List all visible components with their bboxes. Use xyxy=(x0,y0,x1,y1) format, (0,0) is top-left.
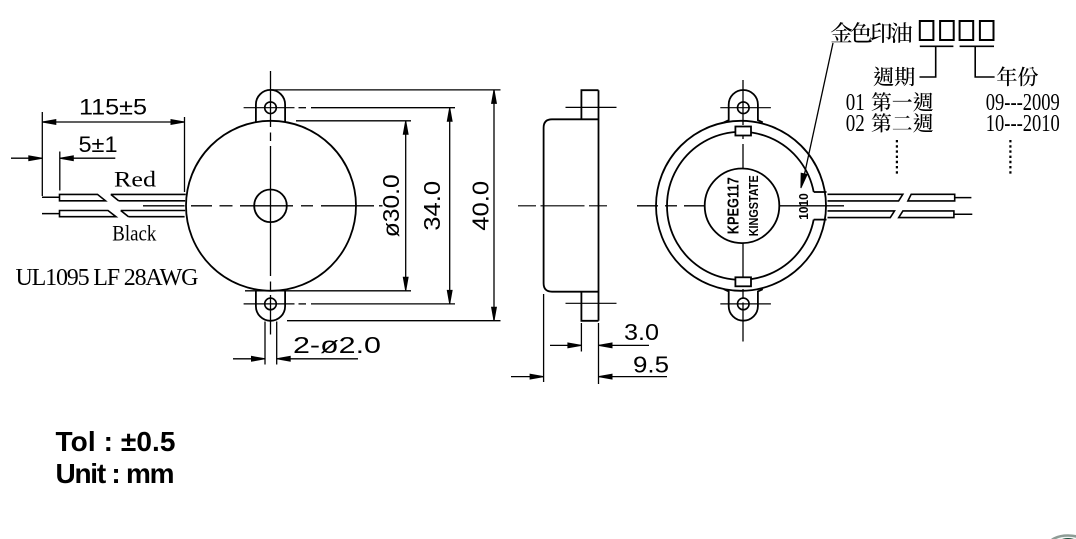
dimension 3.0 extension line right xyxy=(598,323,600,384)
svg-text:ø30.0: ø30.0 xyxy=(378,174,404,237)
black wire insulation segment 2 xyxy=(121,211,186,217)
dimension 9.5 extension line left xyxy=(543,294,545,382)
gold ink print label 金色印油 xyxy=(831,22,852,42)
front view bottom tab hole 2.0 xyxy=(265,298,277,310)
back view black wire segment 2 xyxy=(899,211,954,218)
dimension ø30.0 line xyxy=(405,121,407,291)
black wire bare conductor xyxy=(42,213,60,215)
dimension 9.5 outside arrow right xyxy=(599,376,668,378)
front view top tab hole centerline xyxy=(244,107,295,109)
marking box 4 xyxy=(980,21,994,40)
dimension 5±1 outside arrow left xyxy=(11,157,42,159)
front view center hole xyxy=(254,190,287,223)
marking box 3 xyxy=(960,21,974,40)
dimension 34.0 extension line bottom xyxy=(299,303,307,305)
back view label circle xyxy=(705,169,780,244)
back view red wire segment 2 xyxy=(908,194,955,201)
year label 年份 xyxy=(997,66,1017,86)
back view top rim notch xyxy=(735,127,751,136)
back view bottom rim notch xyxy=(735,277,751,286)
side view body outline xyxy=(544,119,599,291)
svg-text:UL1095 LF 28AWG: UL1095 LF 28AWG xyxy=(16,265,199,291)
svg-text:Red: Red xyxy=(114,167,156,192)
dimension ø30.0 extension line bottom xyxy=(245,290,411,292)
svg-text:9.5: 9.5 xyxy=(633,352,669,378)
week ellipsis dots xyxy=(896,140,898,176)
dimension 5±1 outside arrow right xyxy=(60,157,116,159)
side view bottom hole centerline xyxy=(566,302,617,304)
dimension 9.5 outside arrow left xyxy=(511,376,544,378)
front view bottom mounting tab xyxy=(256,290,285,320)
svg-text:10---2010: 10---2010 xyxy=(986,111,1060,137)
back view outer circle xyxy=(656,121,826,291)
back view horizontal centerline xyxy=(637,205,658,207)
dimension ø30.0 extension line top xyxy=(296,120,411,122)
marking box 2 xyxy=(940,21,954,40)
back view black wire bare conductor xyxy=(954,213,972,215)
dimension 115±5 extension line right xyxy=(184,117,186,192)
week label 週期 xyxy=(874,67,894,87)
dimension 40.0 extension line bottom xyxy=(287,320,501,322)
side view top tab xyxy=(581,90,598,119)
side view bottom tab xyxy=(581,292,598,321)
dimension 2-ø2.0 outside arrow left xyxy=(233,358,265,360)
back view top mounting tab xyxy=(724,90,763,122)
svg-text:2-ø2.0: 2-ø2.0 xyxy=(293,332,381,358)
front view outer circle ø30 xyxy=(186,121,356,291)
dimension 3.0 outside arrow right xyxy=(599,344,650,346)
back view red wire bare conductor xyxy=(955,197,972,199)
front view top tab hole 2.0 xyxy=(265,102,277,114)
svg-text:1010: 1010 xyxy=(797,193,811,220)
dimension 3.0 extension line left xyxy=(580,323,582,352)
back view bottom mounting tab xyxy=(724,289,763,321)
svg-text:5±1: 5±1 xyxy=(79,132,118,157)
dimension 40.0 extension line top xyxy=(271,89,501,91)
dimension 115±5 extension line left xyxy=(41,112,43,196)
svg-text:Unit : mm: Unit : mm xyxy=(56,458,175,489)
svg-text:Black: Black xyxy=(112,221,156,246)
dimension 3.0 outside arrow left xyxy=(550,344,581,346)
front view top mounting tab xyxy=(256,90,285,122)
dimension 40.0 line xyxy=(493,90,495,321)
red wire insulation segment 2 xyxy=(111,194,186,200)
back view rim gap bottom edge xyxy=(814,219,827,221)
dimension 34.0 extension line top xyxy=(299,107,307,109)
black wire insulation segment 1 xyxy=(60,211,117,217)
week code 02 label 第二週 xyxy=(872,113,891,132)
svg-text:Tol : ±0.5: Tol : ±0.5 xyxy=(56,426,176,457)
year bracket xyxy=(960,46,995,77)
side view horizontal centerline xyxy=(518,205,619,207)
red wire insulation segment 1 xyxy=(60,194,106,200)
dimension 2-ø2.0 outside arrow right xyxy=(277,358,358,360)
back view rim gap top edge xyxy=(814,191,827,193)
marking box 1 xyxy=(920,21,934,40)
back view bottom tab hole centerline xyxy=(720,303,771,305)
front view bottom tab hole centerline xyxy=(244,303,295,305)
front view horizontal centerline xyxy=(143,205,185,207)
week bracket xyxy=(920,46,954,77)
svg-text:KPEG117: KPEG117 xyxy=(725,177,742,234)
dimension 5±1 extension line xyxy=(59,152,61,191)
svg-text:40.0: 40.0 xyxy=(467,181,493,231)
leader line to gold print marking xyxy=(803,43,833,180)
red wire bare conductor xyxy=(42,196,60,198)
dimension 34.0 line xyxy=(449,108,451,304)
svg-text:34.0: 34.0 xyxy=(419,181,445,231)
back view red wire segment 1 xyxy=(828,194,903,201)
dimension 2-ø2.0 extension lines xyxy=(264,322,266,365)
svg-text:115±5: 115±5 xyxy=(79,95,147,120)
back view top tab hole centerline xyxy=(720,107,771,109)
partial logo bottom right xyxy=(1049,536,1076,539)
side view base plate right edge xyxy=(598,90,600,321)
year ellipsis dots xyxy=(1009,140,1011,176)
svg-text:3.0: 3.0 xyxy=(624,319,659,345)
svg-text:02: 02 xyxy=(846,111,865,137)
dimension 115±5 line xyxy=(42,121,184,123)
back view bottom tab hole xyxy=(738,298,750,310)
week code 01 label 第一週 xyxy=(872,92,891,111)
svg-text:KINGSTATE: KINGSTATE xyxy=(746,175,761,236)
back view vertical centerline xyxy=(742,80,744,125)
back view black wire segment 1 xyxy=(828,211,895,218)
back view inner rim circle with wire gap xyxy=(667,132,814,280)
side view top hole centerline xyxy=(566,106,617,108)
back view top tab hole xyxy=(738,102,750,114)
front view vertical centerline xyxy=(270,71,272,127)
